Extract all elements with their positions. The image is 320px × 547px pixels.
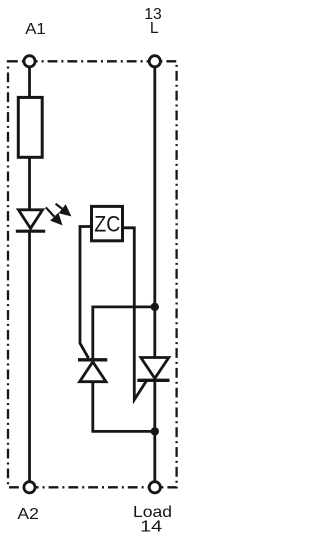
svg-text:14: 14: [140, 519, 162, 536]
LED emission arrow lower: [46, 207, 63, 225]
terminal 13/L: [149, 56, 160, 67]
svg-text:ZC: ZC: [94, 211, 120, 236]
wire ZC left pin to SCR1 gate: [80, 227, 90, 359]
svg-text:L: L: [150, 20, 159, 37]
thyristor SCR2 (right, conducts down): [137, 358, 169, 381]
terminal A2: [24, 482, 35, 493]
ZC box U1: [92, 206, 123, 240]
junction node bottom: [151, 427, 159, 435]
thyristor SCR1 (left, conducts up): [78, 360, 107, 382]
svg-text:A2: A2: [17, 506, 39, 523]
resistor R1: [18, 97, 42, 157]
wire ZC right pin to SCR2 gate: [123, 228, 147, 400]
wire SCR1 anode to node bottom: [93, 381, 155, 431]
svg-text:A1: A1: [25, 21, 46, 38]
junction node top: [151, 303, 159, 311]
LED D1: [16, 210, 45, 231]
wire L rail: [153, 61, 156, 487]
LED emission arrow upper: [56, 204, 72, 217]
wire SCR1 cathode to node top: [93, 307, 155, 359]
terminal A1: [24, 56, 35, 67]
dash-dot enclosure border: [8, 61, 177, 487]
terminal 14/Load: [149, 482, 160, 493]
wire A1 rail lower segment: [28, 231, 31, 487]
wire A1 rail upper segment: [28, 61, 31, 210]
